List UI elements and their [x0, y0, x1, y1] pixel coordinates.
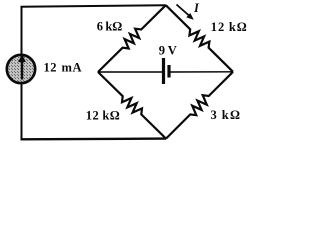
resistor R3 12 kΩ (lower-left diagonal) — [98, 72, 166, 139]
wire: middle branch right segment — [171, 71, 234, 73]
svg-text:12 kΩ: 12 kΩ — [211, 20, 247, 34]
resistor R4 3 kΩ (lower-right diagonal) — [166, 72, 233, 139]
wire: top horizontal from corner to diamond apex — [21, 5, 166, 7]
wire: left vertical from top corner to bottom corner — [21, 7, 23, 140]
current arrow I on upper-right diagonal — [177, 5, 190, 16]
svg-text:6 kΩ: 6 kΩ — [97, 19, 123, 33]
battery V1 9 V: short plate — [167, 65, 170, 78]
svg-text:12 mA: 12 mA — [44, 60, 82, 74]
resistor R2 12 kΩ (upper-right diagonal) — [166, 5, 233, 72]
wire: middle branch left segment — [98, 71, 162, 73]
battery V1 9 V: long plate — [162, 58, 165, 84]
svg-text:3 kΩ: 3 kΩ — [211, 108, 241, 122]
wire: bottom horizontal from corner to diamond bottom vertex — [21, 137, 167, 140]
svg-text:12 kΩ: 12 kΩ — [86, 109, 120, 123]
current source I1 12 mA (circle with up arrow) — [7, 55, 35, 83]
svg-text:9 V: 9 V — [159, 43, 177, 57]
resistor R1 6 kΩ (upper-left diagonal) — [98, 5, 166, 72]
